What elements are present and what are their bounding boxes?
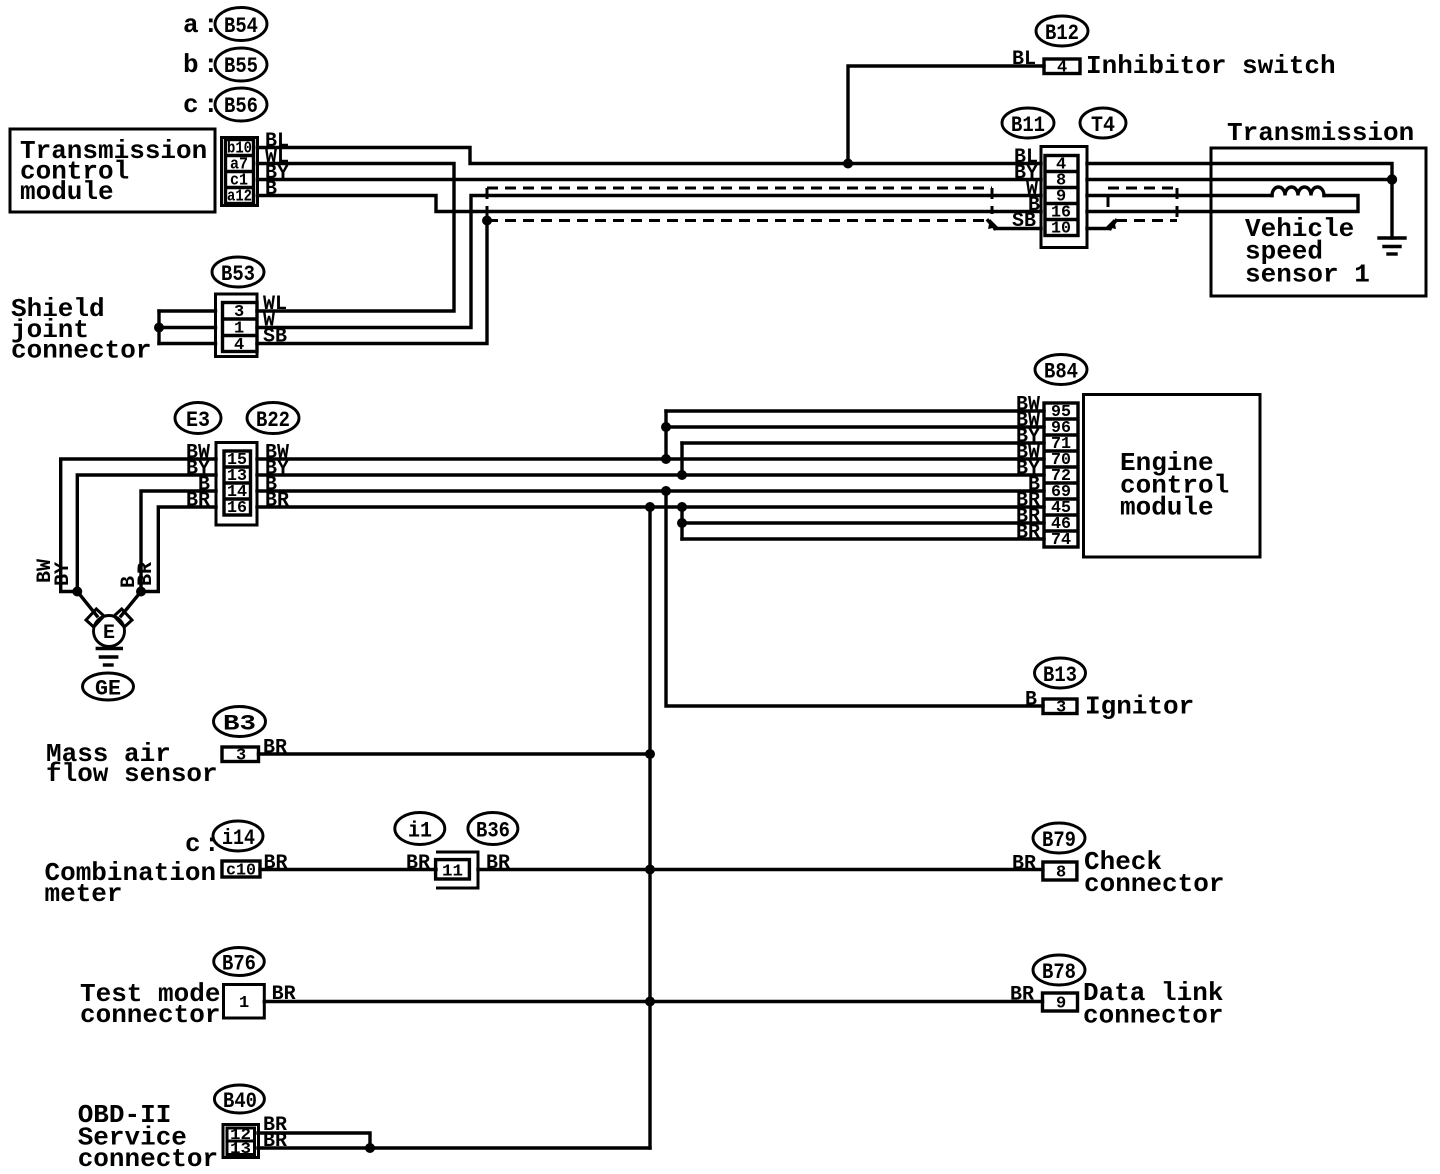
svg-text:3: 3 (1056, 699, 1066, 718)
svg-text:b: b (183, 50, 199, 80)
svg-text:BY: BY (52, 562, 75, 586)
wire BW to ECM pin96 (666, 425, 1044, 428)
wire BR mass air flow to bus (259, 752, 651, 755)
svg-text:9: 9 (1056, 995, 1066, 1014)
svg-text:E3: E3 (186, 408, 210, 433)
test mode connector terminal box pin 1 (224, 985, 265, 1019)
svg-text:B11: B11 (1011, 113, 1045, 138)
svg-text:SB: SB (1012, 210, 1036, 233)
ground inside transmission (1379, 180, 1405, 255)
node B53 shield tie (154, 323, 164, 333)
svg-text:connector: connector (1084, 869, 1224, 899)
ground E symbol (77, 592, 141, 666)
svg-text:74: 74 (1051, 531, 1071, 550)
svg-text:11: 11 (442, 863, 463, 882)
shield joint connector B53 pins 3/1/4 (216, 294, 258, 357)
svg-text:8: 8 (1056, 864, 1066, 883)
TCM connector pins b10/a7/c1/a12 (222, 138, 258, 207)
shield drain arrow to SB wire (988, 221, 995, 229)
wire BW from B22 to ECM pin70 (257, 457, 1044, 460)
connector B13 ellipse (1035, 658, 1086, 688)
svg-text:4: 4 (1057, 59, 1067, 78)
wire BY from E3 to ground E (77, 475, 216, 592)
wire SB from shield joint pin4 to shield (257, 221, 487, 344)
svg-text:4: 4 (234, 336, 244, 355)
svg-text:B76: B76 (222, 952, 256, 977)
svg-text:sensor 1: sensor 1 (1245, 260, 1370, 290)
svg-text:connector: connector (80, 1000, 220, 1030)
node test mode junction (645, 997, 655, 1007)
wire B to ignitor (666, 491, 1043, 706)
connector B3 ellipse (214, 707, 266, 737)
wire BR combination meter to inline connector (260, 868, 436, 871)
wire BW to ECM pin95 (666, 409, 1044, 412)
wire B from B22 to ECM pin69 (257, 489, 1044, 492)
svg-text:a12: a12 (227, 188, 252, 207)
svg-text:B22: B22 (256, 408, 290, 433)
connector B22 ellipse (247, 403, 299, 434)
wire WL from TCM a7 to shield joint pin3 (257, 164, 454, 312)
svg-text:connector: connector (11, 336, 151, 366)
wire BR junction vertical (680, 507, 683, 539)
wire BY to ECM pin71 (682, 441, 1044, 444)
shield dashed box left of B11 (487, 188, 1041, 229)
svg-text:B36: B36 (476, 819, 510, 844)
Transmission control module block (10, 129, 215, 212)
connector T4 ellipse (1080, 108, 1126, 138)
connector E3 ellipse (175, 403, 221, 434)
svg-text:BR: BR (186, 490, 210, 513)
wire BY from B11 pin8 into transmission (1087, 178, 1392, 181)
connector B79 ellipse (1033, 823, 1085, 853)
svg-text:T4: T4 (1091, 113, 1115, 138)
svg-text:meter: meter (45, 879, 123, 909)
svg-text:module: module (20, 177, 114, 207)
wire BW from E3 to ground E (61, 459, 216, 592)
node BL junction to inhibitor switch (843, 159, 853, 169)
connector B84 ellipse (1035, 355, 1087, 385)
inhibitor switch terminal box pin 4 (1044, 59, 1080, 74)
wire BR OBD-II pin12 (258, 1133, 370, 1148)
vehicle speed sensor coil (1272, 187, 1324, 196)
svg-text:B: B (265, 178, 277, 201)
node OBD-II junction (365, 1143, 375, 1153)
inline connector i1/B36 pin 11 (436, 852, 478, 888)
node BW/BY ground junction (72, 587, 82, 597)
node shield junction (482, 216, 492, 226)
svg-text:B56: B56 (224, 94, 258, 119)
svg-text:B12: B12 (1045, 21, 1079, 46)
svg-text:B13: B13 (1043, 663, 1077, 688)
svg-text:E: E (103, 622, 115, 645)
svg-text:B55: B55 (224, 54, 258, 79)
svg-text:Inhibitor switch: Inhibitor switch (1086, 51, 1336, 81)
svg-text:BR: BR (135, 562, 158, 586)
svg-text:connector: connector (1083, 1001, 1223, 1031)
wire BR from E3 to ground E (141, 507, 216, 592)
svg-text:13: 13 (230, 1140, 251, 1158)
node transmission ground junction (1387, 174, 1397, 184)
wire B from B11 pin16 to speed sensor coil (1087, 196, 1358, 212)
wire BL from TCM b10 to B11 pin4 (258, 148, 1042, 164)
wire B from E3 to ground E (141, 491, 216, 592)
wire BR test mode to data link (264, 1000, 1042, 1003)
wire W from shield joint pin1 to B11 pin9 (257, 196, 1041, 328)
wire B from TCM a12 to B11 pin16 (258, 196, 1042, 212)
svg-text:BR: BR (1016, 522, 1040, 545)
connector B12 ellipse (1036, 16, 1088, 46)
svg-text:B78: B78 (1042, 960, 1076, 985)
svg-text:16: 16 (227, 499, 247, 518)
wire BR from B22 to ECM pin45 (257, 505, 1044, 508)
wire BR OBD-II pin13 to bus (258, 1146, 650, 1149)
svg-text:1: 1 (239, 994, 249, 1013)
svg-text:connector: connector (78, 1144, 218, 1174)
shield dashed box right of B11 (1108, 188, 1177, 221)
check connector terminal box pin 8 (1043, 862, 1077, 880)
svg-text:B53: B53 (221, 262, 255, 287)
svg-text:Ignitor: Ignitor (1085, 692, 1194, 722)
connector B78 ellipse (1033, 955, 1085, 985)
node B/BR ground junction (136, 587, 146, 597)
combination meter terminal box pin c10 (222, 861, 260, 877)
svg-text:BR: BR (263, 737, 287, 760)
svg-text:B3: B3 (223, 712, 256, 737)
Transmission block (1211, 118, 1426, 296)
svg-text:BR: BR (486, 852, 510, 875)
connector E3/B22 pins 15/13/14/16 (216, 443, 257, 526)
OBD-II connector pins 12/13 (223, 1125, 259, 1159)
wire BW junction vertical (664, 411, 667, 459)
svg-text:i1: i1 (408, 819, 432, 844)
Engine control module block (1084, 395, 1261, 558)
wire BL branch to inhibitor switch (848, 66, 1044, 164)
svg-text:B79: B79 (1042, 828, 1076, 853)
legend a: connector B54 (183, 8, 267, 41)
connector B11 ellipse (1002, 108, 1054, 138)
svg-text:c: c (183, 90, 199, 120)
svg-text:3: 3 (236, 747, 246, 766)
wire SB from B11 pin10 to right shield (1087, 227, 1110, 230)
svg-text:B54: B54 (224, 14, 258, 39)
svg-text:module: module (1120, 493, 1214, 523)
node mass air flow junction (645, 749, 655, 759)
svg-text:BR: BR (1010, 984, 1034, 1007)
svg-text:BR: BR (1012, 853, 1036, 876)
connector B36 ellipse (468, 813, 518, 845)
svg-text:flow sensor: flow sensor (46, 759, 218, 789)
legend c: connector B56 (183, 88, 267, 121)
node B wire ignitor junction (661, 486, 671, 496)
svg-text:B: B (1025, 689, 1037, 712)
ignitor terminal box pin 3 (1043, 699, 1077, 714)
wire BY from TCM c1 to B11 pin8 (258, 178, 1042, 181)
legend b: connector B55 (183, 48, 267, 81)
svg-text:a: a (183, 10, 199, 40)
ECM connector pins 95/96/71/70/72/69/45/46/74 (1044, 403, 1078, 550)
svg-text:c10: c10 (226, 862, 256, 881)
long BR bus vertical (648, 507, 651, 1148)
svg-text:c: c (185, 829, 201, 859)
svg-text:BL: BL (1012, 48, 1036, 71)
svg-text:B40: B40 (223, 1089, 257, 1114)
connector B53 ellipse (212, 257, 264, 287)
svg-text:BR: BR (264, 852, 288, 875)
connector B40 ellipse (214, 1085, 264, 1113)
svg-text:Transmission: Transmission (1227, 118, 1414, 148)
wire BR inline connector to check connector (478, 868, 1043, 871)
node combination meter junction (645, 865, 655, 875)
wires B53 left side to shield tie (159, 309, 216, 312)
wire BY from B22 to ECM pin72 (257, 473, 1044, 476)
svg-text:BR: BR (406, 852, 430, 875)
svg-text:GE: GE (95, 677, 121, 702)
wire BY junction vertical (680, 443, 683, 475)
svg-text:B84: B84 (1044, 360, 1078, 385)
svg-text:10: 10 (1051, 220, 1071, 239)
connector B11/T4 pins 4/8/9/16/10 (1041, 147, 1087, 248)
connector B76 ellipse (214, 948, 265, 976)
data link connector terminal box pin 9 (1043, 993, 1078, 1011)
mass air flow sensor terminal box pin 3 (222, 747, 259, 762)
wire BL from B11 pin4 into transmission (1087, 164, 1392, 180)
wire W from B11 pin9 to speed sensor coil (1087, 194, 1272, 197)
svg-text:BR: BR (265, 490, 289, 513)
svg-text:i14: i14 (222, 826, 255, 851)
svg-text:SB: SB (263, 326, 287, 349)
wire BR to ECM pin46 (682, 521, 1044, 524)
wire BR to ECM pin74 (682, 537, 1044, 540)
ground GE ellipse (83, 673, 134, 700)
connector i1 ellipse (395, 813, 445, 845)
